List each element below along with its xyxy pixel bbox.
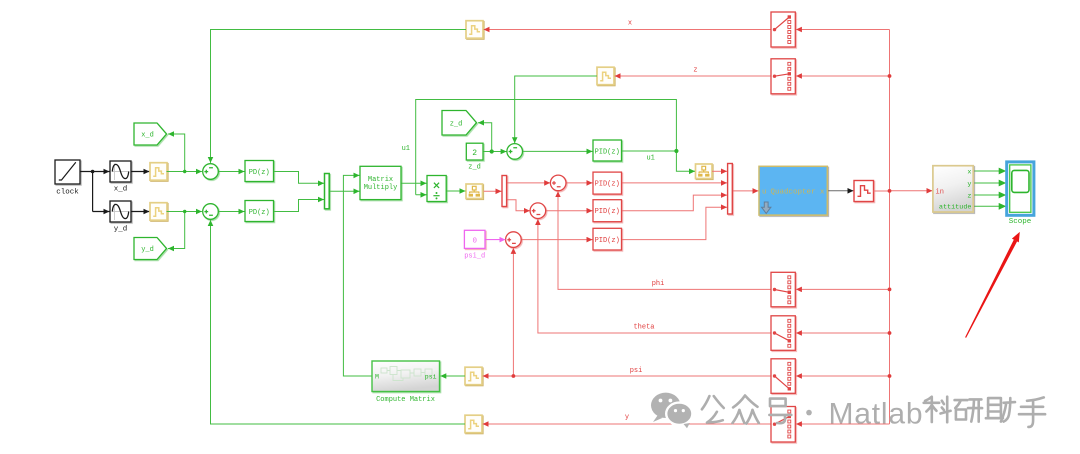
- svg-text:x_d: x_d: [141, 132, 154, 140]
- svg-text:Scope: Scope: [1009, 218, 1032, 226]
- svg-text:y: y: [967, 180, 971, 188]
- svg-text:PID(z): PID(z): [595, 149, 620, 157]
- svg-text:Compute Matrix: Compute Matrix: [376, 396, 435, 404]
- svg-text:Quadcopter: Quadcopter: [770, 188, 815, 196]
- svg-text:u1: u1: [402, 145, 410, 153]
- svg-text:u1: u1: [646, 155, 654, 163]
- svg-text:PID(z): PID(z): [595, 237, 620, 245]
- svg-text:x: x: [628, 20, 632, 28]
- svg-text:x: x: [820, 188, 825, 196]
- svg-text:u: u: [762, 188, 767, 196]
- svg-text:x_d: x_d: [114, 186, 128, 194]
- svg-text:M: M: [375, 374, 379, 381]
- svg-text:x: x: [967, 168, 971, 176]
- svg-text:PD(z): PD(z): [249, 169, 270, 177]
- svg-text:PID(z): PID(z): [595, 181, 620, 189]
- svg-text:psi: psi: [630, 367, 643, 375]
- svg-text:theta: theta: [633, 324, 654, 332]
- svg-text:z: z: [967, 192, 971, 200]
- svg-text:z: z: [693, 67, 697, 75]
- svg-text:y: y: [625, 414, 629, 422]
- svg-text:phi: phi: [652, 280, 665, 288]
- svg-text:y_d: y_d: [141, 246, 154, 254]
- svg-text:attitude: attitude: [939, 204, 972, 212]
- svg-text:Multiply: Multiply: [364, 184, 398, 192]
- svg-text:z_d: z_d: [468, 164, 481, 172]
- svg-text:Matrix: Matrix: [368, 176, 393, 184]
- svg-text:psi_d: psi_d: [464, 253, 485, 261]
- svg-text:Matlab: Matlab: [829, 398, 924, 431]
- svg-text:in: in: [936, 188, 944, 196]
- svg-text:y_d: y_d: [114, 226, 128, 234]
- svg-text:z_d: z_d: [450, 120, 463, 128]
- svg-text:PID(z): PID(z): [595, 208, 620, 216]
- svg-text:psi: psi: [425, 374, 437, 381]
- svg-text:0: 0: [472, 237, 477, 245]
- svg-text:clock: clock: [56, 189, 79, 197]
- svg-text:PD(z): PD(z): [249, 209, 270, 217]
- svg-text:2: 2: [472, 149, 477, 158]
